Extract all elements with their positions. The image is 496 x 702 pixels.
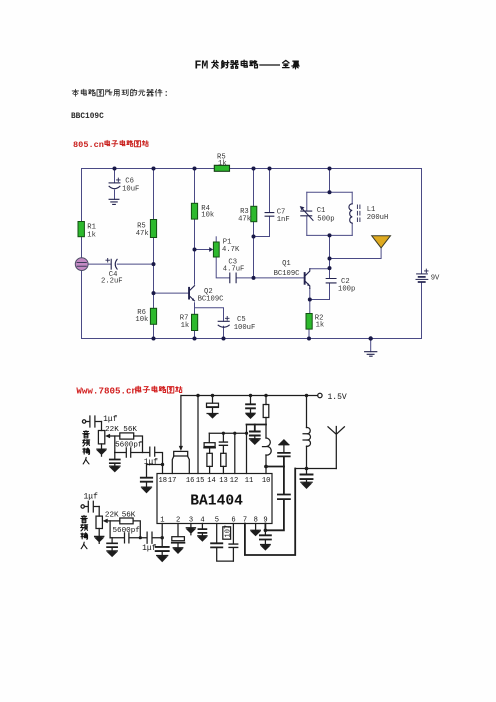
capacitor C4: [106, 258, 117, 269]
resistor box on pin10 column: [263, 405, 269, 418]
node dots: [113, 167, 373, 341]
IC BA1404: [157, 474, 272, 524]
svg-text:22K: 22K: [105, 426, 119, 434]
microphone MIC: [75, 258, 88, 271]
svg-text:8: 8: [254, 517, 258, 525]
resistor R7: [192, 314, 198, 330]
wiper arrowhead pot1 top: [179, 446, 183, 451]
svg-text:100uF: 100uF: [234, 324, 256, 332]
svg-text:6: 6: [231, 517, 235, 525]
part label BBC109C: [71, 113, 104, 121]
svg-text:R1: R1: [87, 224, 96, 232]
pin5 cap and loop: [211, 524, 233, 562]
svg-text:3: 3: [189, 517, 193, 525]
pin2 electro cap ground: [172, 524, 185, 554]
channel1 cap-ground below wiper: [110, 453, 120, 472]
cap-ground below x306: [301, 469, 313, 489]
watermark 2 red: [76, 385, 182, 396]
capacitor C5: [218, 317, 229, 328]
wire C4 to node: [117, 263, 153, 265]
svg-text::: :: [164, 89, 169, 99]
svg-text:56K: 56K: [123, 426, 137, 434]
resistor R4: [191, 203, 197, 219]
labels circuit1: [87, 154, 440, 332]
wire pin12 column: [234, 433, 236, 473]
resistor R3: [251, 206, 257, 221]
svg-text:15: 15: [196, 477, 205, 485]
wire tank to antenna node: [329, 235, 331, 278]
svg-text:18: 18: [159, 477, 168, 485]
wire R4 column: [194, 169, 196, 285]
svg-text:107: 107: [225, 525, 233, 538]
svg-text:1μf: 1μf: [142, 544, 157, 553]
pin9 bold branch: [264, 465, 290, 532]
cap and up-triangle above x283: [278, 440, 290, 467]
wire C2 bottom: [310, 283, 330, 300]
wire emitter to C5: [195, 308, 224, 339]
ground bottom right: [365, 352, 377, 357]
channel2 pot 22K: [96, 507, 102, 537]
svg-text:12: 12: [230, 477, 239, 485]
resistor R2: [306, 314, 312, 330]
svg-text:10k: 10k: [201, 212, 214, 220]
channel1 1uf cap2: [150, 447, 155, 456]
svg-text:1nF: 1nF: [277, 216, 290, 224]
pin7 output loop: [245, 469, 295, 556]
trimmer P1: [209, 242, 219, 257]
svg-text:Q1: Q1: [282, 260, 291, 268]
channel1 series row wire: [115, 453, 163, 465]
pin6 filter box and cap: [223, 524, 238, 562]
ground below x212 cap: [207, 414, 218, 418]
channel1 input cap 1uf: [86, 416, 102, 427]
inductor on pin10 column: [263, 438, 272, 455]
antenna ANT1: [372, 236, 391, 248]
wire R2 to rail: [308, 329, 310, 339]
chain pin13: cap + resistor: [219, 433, 227, 473]
svg-text:7: 7: [243, 517, 247, 525]
tank box right (L1 gaps): [351, 192, 353, 235]
pin18 node and shunt cap: [141, 463, 164, 493]
svg-text:C1: C1: [317, 207, 326, 215]
trimmer pot top (16-17): [174, 451, 188, 456]
paragraph components used: [72, 89, 169, 99]
terminal 1.5V: [318, 393, 322, 397]
svg-text:1k: 1k: [316, 322, 325, 330]
inductor x306: [303, 427, 310, 446]
tank box left (C1 gaps): [306, 192, 308, 235]
wire Q2 emitter column: [194, 303, 196, 339]
svg-text:1μf: 1μf: [84, 492, 99, 501]
svg-text:C5: C5: [237, 316, 246, 324]
svg-text:200uH: 200uH: [367, 214, 389, 222]
wire P1 top stub: [215, 237, 217, 242]
svg-text:BC109C: BC109C: [274, 270, 301, 278]
svg-text:5600pf: 5600pf: [115, 441, 143, 449]
resistor R6: [150, 308, 156, 324]
labels circuit2: [81, 393, 347, 553]
wire supply rail 1.5V: [181, 395, 317, 397]
svg-text:1μf: 1μf: [144, 458, 159, 467]
wire pin10 column: [265, 396, 267, 474]
bold branch to cap-ground x254: [247, 424, 267, 426]
wire top rail: [82, 168, 422, 170]
wire right rail (battery branch): [421, 169, 423, 339]
ground below x250 cap: [246, 413, 255, 418]
channel2 resistor 56K: [110, 518, 140, 538]
svg-text:13: 13: [219, 477, 228, 485]
rail node dots: [196, 394, 308, 471]
coil to antenna feed x306: [306, 396, 308, 469]
resistor R5 top (1k): [214, 165, 229, 171]
capacitor C7: [265, 213, 274, 217]
wire tank feed: [329, 169, 331, 193]
svg-text:FM: FM: [195, 60, 209, 73]
channel2 wiper arrow: [103, 519, 110, 538]
svg-text:56K: 56K: [122, 512, 136, 520]
ground below pot2: [95, 536, 104, 543]
wire pin11 column: [246, 425, 248, 474]
svg-text:47k: 47k: [136, 230, 149, 238]
channel2 cap-ground below wiper: [107, 538, 117, 557]
pin4 cap ground: [198, 524, 207, 541]
battery BT1 9V: [416, 269, 428, 282]
svg-text:22K: 22K: [105, 512, 119, 520]
antenna symbol: [328, 427, 344, 469]
capacitor C3: [230, 273, 236, 283]
wire C3 to node: [236, 277, 253, 279]
antenna wire: [295, 468, 336, 470]
svg-text:Www.7805.cn: Www.7805.cn: [76, 385, 137, 396]
channel2 series row wire: [110, 537, 162, 539]
wire C7 branch: [254, 169, 270, 237]
svg-text:1k: 1k: [218, 160, 227, 168]
variable capacitor C1: [300, 206, 313, 220]
wire P1 bottom to C3: [216, 257, 229, 278]
svg-text:4.7K: 4.7K: [222, 246, 240, 254]
resistor R5 (47k): [150, 220, 156, 238]
wire antenna branch: [330, 248, 382, 259]
tank box bottom: [307, 234, 352, 236]
transistor Q1: [304, 269, 310, 289]
svg-text:4: 4: [200, 517, 204, 525]
chain pin14: electro cap + resistor: [204, 433, 215, 473]
pin3 ground: [186, 524, 195, 535]
pin1 node cap-ground: [156, 524, 169, 562]
capacitor C6: [109, 178, 120, 189]
svg-text:11: 11: [245, 477, 254, 485]
svg-text:4.7uF: 4.7uF: [223, 265, 245, 273]
transistor Q2: [188, 286, 194, 301]
ground below pot1: [97, 449, 106, 456]
wire Q1 collector: [310, 268, 330, 270]
svg-text:BA1404: BA1404: [190, 494, 243, 510]
svg-text:100p: 100p: [338, 285, 355, 293]
svg-text:5600pf: 5600pf: [113, 527, 141, 535]
channel1 pot 22K: [98, 422, 104, 449]
channel1 input terminal: [82, 420, 85, 423]
channel2 input terminal: [81, 505, 84, 508]
svg-text:BC109C: BC109C: [198, 296, 225, 304]
svg-text:500p: 500p: [317, 216, 334, 224]
wire R5b column: [153, 169, 155, 339]
pin9 cap-ground below: [260, 530, 271, 549]
channel1 5600pf cap: [126, 448, 130, 457]
pin8 ground: [251, 524, 261, 536]
wire bottom rail: [82, 338, 422, 340]
svg-text:47k: 47k: [238, 215, 251, 223]
inductor L1: [349, 204, 360, 223]
channel1 wiper arrow: [105, 434, 115, 453]
wire C6 branch: [114, 169, 116, 200]
capacitor C2: [326, 279, 336, 283]
wire Q2 base: [154, 292, 189, 294]
svg-text:2.2uF: 2.2uF: [101, 278, 123, 286]
cap to ground at rail x250: [246, 396, 255, 413]
wire Q1 base: [254, 277, 304, 279]
svg-text:2: 2: [176, 517, 180, 525]
wire pot1 wiper drop: [180, 396, 182, 447]
tank box top: [307, 191, 352, 193]
svg-text:1.5V: 1.5V: [328, 393, 347, 402]
svg-text:9: 9: [263, 517, 267, 525]
wire pin16 stub: [188, 456, 190, 474]
wire bias row y432.7: [209, 432, 246, 434]
electrolytic cap at rail x212: [207, 396, 219, 414]
watermark 1 red: [73, 140, 148, 150]
channel1 resistor 56K: [115, 433, 143, 453]
channel2 5600pf cap: [125, 533, 129, 543]
ground below C6: [109, 199, 119, 204]
svg-text:5: 5: [215, 517, 219, 525]
wire left rail: [81, 169, 83, 339]
wire P1 wiper: [195, 249, 211, 251]
svg-text:1k: 1k: [87, 231, 96, 239]
channel2 1uf cap2: [147, 532, 152, 543]
svg-text:1: 1: [160, 517, 164, 525]
svg-text:9V: 9V: [431, 275, 440, 283]
wire ground stem right: [370, 339, 372, 352]
svg-text:16: 16: [186, 477, 195, 485]
svg-text:1k: 1k: [181, 322, 190, 330]
cap-ground at x254: [250, 425, 261, 445]
svg-text:14: 14: [207, 477, 216, 485]
wire R3 column: [253, 169, 255, 278]
svg-text:10: 10: [262, 477, 271, 485]
wire Q1 emitter column: [309, 289, 311, 314]
svg-text:805.cn: 805.cn: [73, 140, 104, 150]
wire mic to C4: [88, 263, 111, 265]
svg-text:17: 17: [168, 477, 177, 485]
svg-text:C6: C6: [125, 178, 134, 186]
resistor R1: [78, 222, 84, 237]
wire pin15 column: [197, 396, 199, 474]
svg-text:1μf: 1μf: [103, 415, 118, 424]
channel2 input cap 1uf: [84, 501, 99, 512]
svg-text:10k: 10k: [135, 316, 148, 324]
svg-text:10uF: 10uF: [122, 186, 139, 194]
title FM transmitter heading: [195, 60, 300, 73]
junction dot channel2 row: [139, 536, 142, 539]
svg-text:L1: L1: [367, 206, 376, 214]
wire pin17 stub: [172, 456, 174, 474]
